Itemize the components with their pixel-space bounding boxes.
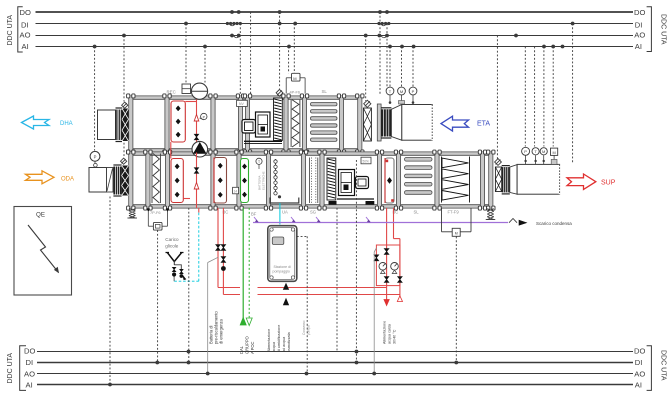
pressure sensor left [90,151,100,167]
junction dots cluster fan2 [377,10,390,38]
supply damper strip [495,167,501,192]
svg-text:M: M [455,232,458,236]
fan bottom row [329,170,375,205]
svg-text:AO: AO [24,369,35,378]
svg-text:DHA: DHA [60,121,73,127]
ETA duct [391,105,432,141]
svg-text:50%: 50% [363,159,370,163]
wire AI to pump REC [203,45,207,83]
svg-text:acqua: acqua [272,341,276,352]
svg-text:FT-F9: FT-F9 [448,209,460,214]
svg-text:AI: AI [635,380,642,389]
recirculation damper actuator NV [237,100,248,106]
arrow DHA [22,116,73,129]
pump run-around on divider [192,141,208,157]
arrow ODA [26,171,75,184]
svg-text:SUP: SUP [601,180,616,187]
svg-text:SG: SG [310,209,316,214]
arrow ETA [441,116,490,131]
wire ODA damper to AI bottom [108,197,112,387]
svg-text:pompaggio: pompaggio [273,270,290,274]
svg-text:acqua calda: acqua calda [388,323,392,344]
humidifier UA [270,159,299,214]
svg-text:M: M [400,89,403,94]
svg-text:30/40 °C: 30/40 °C [393,329,397,344]
svg-text:AO: AO [634,369,645,378]
svg-text:REC: REC [167,90,176,95]
sensors above SUP duct [522,147,558,164]
wire DI to actuator M [293,22,297,74]
svg-text:AI: AI [635,42,642,51]
svg-text:AI: AI [26,380,33,389]
svg-text:M: M [542,149,545,154]
svg-text:DI: DI [21,21,29,30]
svg-text:DI: DI [635,21,643,30]
wire fan2 inlet to DO bottom [336,208,338,352]
damper symbol bottom-left [121,158,127,164]
exhaust damper strip ETA [363,100,371,141]
svg-text:di emergenza: di emergenza [219,318,224,344]
wire AO to SUP damper [497,34,517,161]
svg-text:pompa: pompa [307,325,311,335]
wire DI to SUP duct right [571,22,575,163]
flexible connection ETA [381,108,391,138]
arrow SUP [567,174,616,189]
condensate siphon FT section [442,208,472,236]
svg-text:P: P [412,89,415,94]
svg-text:AO: AO [634,31,645,40]
svg-text:BF: BF [251,211,257,216]
svg-text:Consenso: Consenso [302,320,306,335]
ODA intake duct bottom row [89,168,113,193]
glycol fill pipe cyan [174,208,199,281]
device box on BC [233,187,239,194]
glycol fill station [165,237,186,281]
bag filter FT-F9 [442,157,470,215]
droplet separator SG [310,158,318,215]
svg-text:Carico: Carico [165,237,179,242]
AHU bottom row casing [129,152,493,208]
wire coil probe to DO DI bottom [187,208,191,365]
AHU top row section posts [127,94,364,154]
pipe BC1 red pair down [216,208,226,295]
svg-text:NV: NV [239,102,244,106]
capillary to bus AO left [206,257,218,375]
svg-text:AO: AO [20,31,31,40]
svg-text:osmotizzata: osmotizzata [287,331,291,352]
svg-text:M: M [553,151,556,155]
svg-text:DO: DO [634,8,645,17]
flexible connection top-left [116,108,123,142]
temperature sensor in BF section [256,158,265,190]
flexible connection SUP [502,166,510,194]
svg-text:M: M [293,76,296,81]
pump REC above casing [167,83,208,99]
actuator M 4P-F6 with bracket [286,73,305,93]
filter 1P-F6 top row [291,100,300,147]
pipe REC red with valve [185,98,207,147]
fan bottom row inlet strip [327,158,336,200]
wire fan2 to DO DI bottom [355,160,359,364]
inverter box 50 fan2 [361,157,371,164]
svg-text:UA: UA [282,209,288,214]
humidifier feed cyan [279,203,281,225]
wire AI to actuator M [287,45,291,74]
svg-text:DAL: DAL [239,345,244,354]
hot water coil BC bottom [214,158,228,215]
junction dots cluster fan1 [226,10,242,38]
svg-text:AI: AI [22,42,29,51]
svg-text:ELETTRICHE: ELETTRICHE [261,171,265,190]
wire bus to fan2 section [380,12,387,96]
svg-text:glicole: glicole [165,244,178,249]
svg-text:SL: SL [322,89,328,94]
svg-text:ad acqua: ad acqua [282,336,286,352]
svg-text:DDC UTA: DDC UTA [660,14,667,45]
svg-text:T: T [258,160,260,164]
sensors above ETA duct [386,87,417,104]
bus DDC UTA bottom [7,346,667,391]
wire DI to pump REC [184,22,188,84]
svg-text:7P-F6: 7P-F6 [150,210,161,215]
svg-text:Alimentazione: Alimentazione [383,321,387,344]
svg-text:Stazione di: Stazione di [274,265,292,269]
svg-text:ODA: ODA [61,176,74,182]
wire DO DI to filter damper [278,10,282,88]
cold water coil BF bottom [241,159,257,217]
fan outlet flexible strip top row [274,98,283,141]
fan top row [242,112,282,144]
bus DDC UTA top [7,7,667,52]
svg-text:Alimentazione: Alimentazione [267,329,271,352]
flexible connection bottom-left [113,165,121,196]
label humidifier water [267,325,291,352]
pipe chilled water green [240,208,252,326]
ODA intake duct top row [98,110,116,140]
svg-text:DO: DO [20,8,31,17]
svg-text:DDC UTA: DDC UTA [7,15,14,46]
pumping station box [268,226,297,282]
pipe BC2 red assembly [374,208,402,295]
hot water supply return arrows [384,288,403,306]
humidifier water feed arrow [283,299,288,306]
svg-text:DI: DI [635,358,643,367]
emergency pre-heating coil bottom [171,159,183,203]
damper symbol top-left [122,102,128,108]
svg-text:4P-F6: 4P-F6 [290,89,301,94]
wire bus to fan section top row [240,12,250,96]
svg-text:P: P [94,154,97,159]
label hot water 30-40 [383,321,397,344]
post before ETA flex [377,104,381,141]
damper bottom-left [122,166,129,196]
svg-text:ETA: ETA [477,121,490,128]
pipe hot water horizontal pair [218,288,400,295]
wire AI to pressure sensor left [93,45,97,151]
filter pressure switch 7P-F6 [147,209,169,230]
wire pumping station to AO bottom [297,236,311,375]
post-heating coil BC2 [385,158,398,214]
wire AO to ODA dampers [122,34,126,158]
filter 7P-F6 bottom row [150,154,161,216]
capillary to bus AO right [372,248,376,375]
pump station connection arrow [283,284,288,290]
wire AO to ETA damper [364,34,368,101]
svg-text:Scarico condensa: Scarico condensa [536,221,572,226]
AHU top row casing [129,96,363,152]
svg-text:QE: QE [36,212,45,219]
damper top-left [122,109,129,142]
svg-text:DI: DI [26,358,34,367]
label DAL GRUPPO A POC [239,336,255,354]
wire condensate actuator to DI bottom [454,237,458,365]
svg-text:di umidificazione: di umidificazione [277,325,281,352]
wire AI to SUP duct sensors [525,45,564,147]
svg-text:DO: DO [24,347,35,356]
run-around recovery coil top (REC) [171,101,185,142]
svg-text:GRUPPO: GRUPPO [245,336,250,354]
AHU bottom row section posts [127,150,495,210]
damper symbol SUP duct [495,159,502,166]
silencer SL top row [311,89,338,141]
svg-text:DO: DO [634,347,645,356]
SUP duct [510,164,560,194]
svg-text:A POC: A POC [250,341,255,354]
electrical panel QE [14,207,72,296]
pipe run-around bottom with valve [171,142,199,208]
svg-text:P: P [524,149,527,154]
svg-text:SL: SL [414,209,420,214]
svg-text:DDC UTA: DDC UTA [7,353,14,384]
silencer SL bottom [405,158,433,215]
wire AI to ETA duct sensors [388,45,415,88]
svg-text:DDC UTA: DDC UTA [660,350,667,381]
svg-text:14: 14 [234,189,238,193]
wire filter switch to DI bottom [155,230,159,364]
damper symbol above fan section [276,89,300,96]
label emergency coil [209,311,224,344]
vibration springs [127,209,495,220]
condensate drain purple [253,217,572,226]
